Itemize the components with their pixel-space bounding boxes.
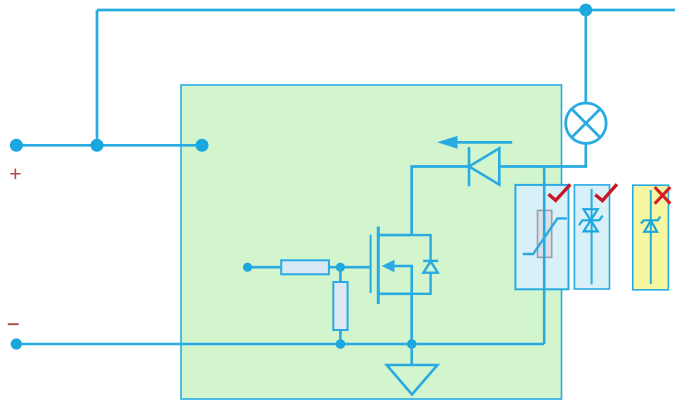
node source junction [407,339,417,349]
cross mark zener [656,188,670,202]
wire diode rail left / drain drop [412,167,469,236]
wire source drop [410,294,413,344]
resistor R2 [333,267,347,344]
zener diode D3 [641,217,660,232]
transistor Q1 (n-MOSFET) [371,227,412,305]
svg-text:+: + [9,163,21,186]
node plus terminal [10,139,23,152]
wire gate input [248,266,282,269]
wire lamp to diode rail [499,143,586,167]
node top junction [579,4,592,17]
wire bottom rail (minus) [16,343,544,346]
lamp L1 [566,103,606,143]
varistor option box [515,185,568,289]
node module input pin [196,139,209,152]
varistor RV1 body [538,210,552,257]
body diode of Q1 [412,235,439,294]
body stub with arrow [393,266,412,294]
node R2 bottom junction [336,339,346,349]
wire lamp drop [584,10,587,103]
wire varistor branch [543,167,546,345]
wire top bus [97,9,675,12]
wire left riser [96,10,99,145]
TVS diode D2 (bidirectional) [579,209,603,231]
drain stub [378,234,411,237]
resistor R1 [248,260,371,274]
node gate junction [336,263,345,272]
wire TVS lead [591,189,593,284]
current direction arrow [437,136,512,149]
zener option box [633,185,669,290]
wire zener lead [650,190,652,284]
channel line [377,227,380,305]
node minus terminal [11,338,22,349]
TVS option box [574,185,609,289]
varistor RV1 stroke [523,218,567,254]
ground [387,344,438,395]
gate line [370,235,372,294]
source stub [378,292,411,295]
wire plus input [16,144,202,147]
arrow of MOSFET [382,260,395,273]
node plus junction [91,139,104,152]
label minus [8,323,19,325]
check mark varistor [550,186,569,201]
module box (green) [181,85,562,399]
diode D1 [469,147,499,186]
check mark TVS [597,186,616,201]
node gate input terminal [243,263,252,272]
